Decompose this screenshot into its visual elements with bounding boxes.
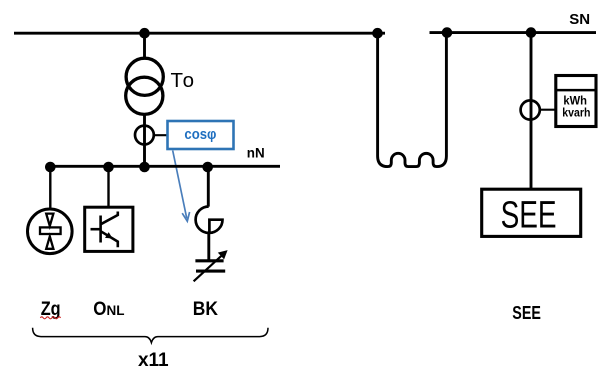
node junction right bus at SEE drop <box>526 27 537 38</box>
wire nN bus to BK contactor <box>207 167 210 207</box>
wire CT to energy meter <box>540 109 556 111</box>
node junction nN at transformer <box>139 162 150 173</box>
wire SN bus to SEE box <box>530 33 533 189</box>
node junction nN at ONL <box>103 162 114 173</box>
node junction right bus left dot <box>442 27 453 38</box>
node junction on SN bus at cable drop <box>372 28 383 39</box>
Zg inner symbol bottom triangle <box>46 236 53 248</box>
BK contactor quarter disc <box>209 220 222 233</box>
wire SN bus right segment <box>430 31 597 34</box>
energy meter divider <box>556 89 596 92</box>
brace x11 <box>33 328 268 343</box>
svg-text:To: To <box>171 69 195 92</box>
capacitor bottom plate <box>196 270 225 273</box>
transformer To lower winding <box>126 77 163 114</box>
nonlinear load ONL box <box>85 207 133 251</box>
svg-text:BK: BK <box>193 298 218 320</box>
node junction on SN bus at transformer <box>139 28 150 39</box>
wire from CT to cosphi box <box>154 134 167 136</box>
Zg inner symbol top triangle <box>46 214 53 226</box>
current transformer for energy meter <box>521 100 540 119</box>
spellcheck underline under Zg <box>40 317 60 319</box>
Zg inner symbol bar <box>40 227 61 234</box>
wire contactor to capacitor <box>207 233 210 260</box>
BK contactor hook arc <box>196 207 222 233</box>
transistor emitter arrowhead <box>105 232 113 238</box>
capacitor top plate <box>195 259 223 262</box>
svg-text:nN: nN <box>247 146 265 161</box>
node junction nN at BK <box>202 162 213 173</box>
wire nN bus to ONL <box>107 167 109 207</box>
transformer To upper winding <box>126 58 163 95</box>
SEE box <box>482 189 581 236</box>
svg-text:ONL: ONL <box>93 299 124 320</box>
svg-text:Zg: Zg <box>41 298 61 320</box>
svg-text:kvarh: kvarh <box>562 107 590 119</box>
wire from transformer to nN bus <box>143 114 146 167</box>
svg-text:SEE: SEE <box>512 302 541 323</box>
wire from SN bus to transformer To <box>143 33 146 58</box>
wire nN bus <box>46 165 281 168</box>
energy meter box <box>556 76 596 127</box>
node junction nN at Zg <box>45 162 56 173</box>
variable capacitor arrow <box>194 254 224 282</box>
svg-text:kWh: kWh <box>563 96 587 108</box>
wire nN bus to Zg <box>49 167 51 209</box>
transistor symbol inside ONL <box>91 212 118 248</box>
svg-text:SEE: SEE <box>501 195 557 237</box>
wire SN bus left segment <box>14 32 385 35</box>
current transformer for cosphi meter <box>135 126 154 145</box>
svg-text:SN: SN <box>569 11 590 28</box>
cable drop with wavy section <box>378 33 447 167</box>
load Zg circle <box>28 209 73 254</box>
cosphi controller box <box>168 121 234 149</box>
svg-text:cosφ: cosφ <box>184 127 216 143</box>
svg-text:x11: x11 <box>138 350 169 371</box>
blue arrow from cosphi box to BK <box>173 151 190 222</box>
